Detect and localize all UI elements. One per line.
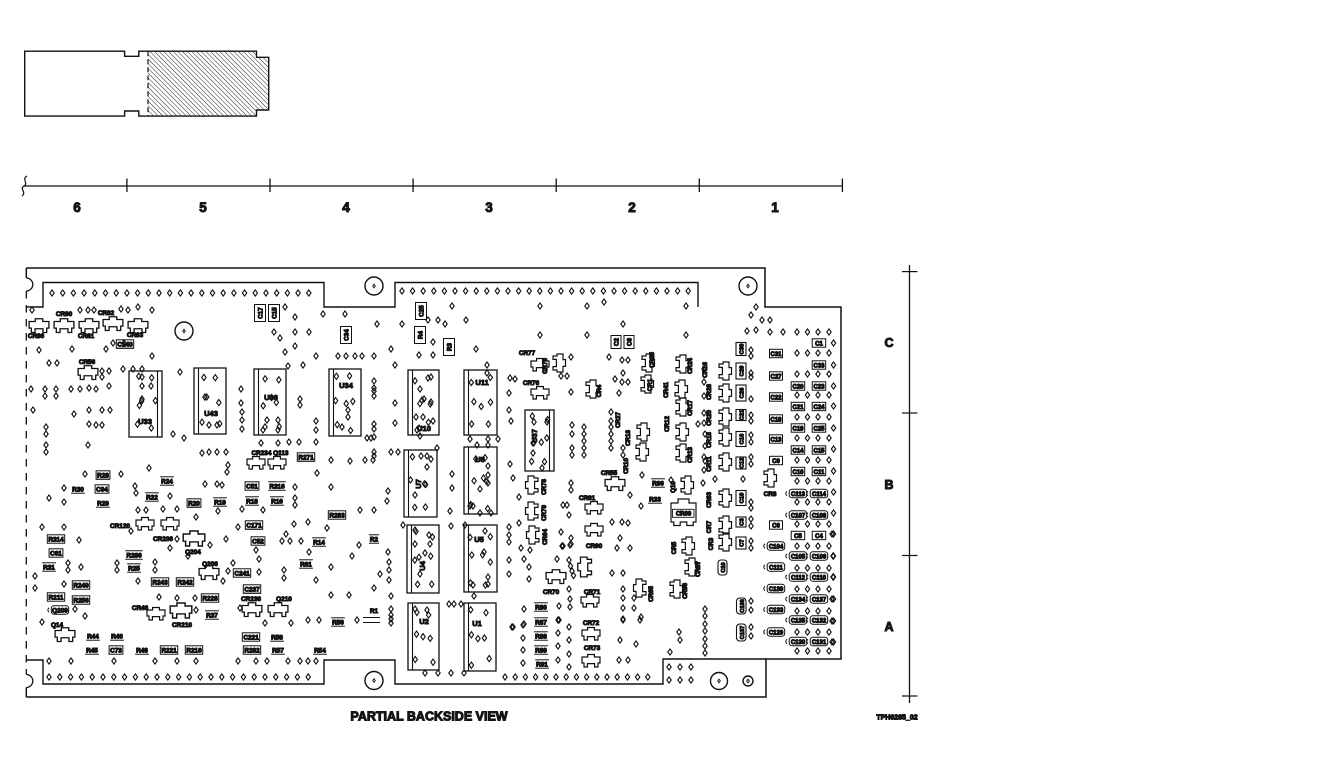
resistor R88 label [534, 639, 548, 641]
svg-text:U1: U1 [472, 619, 482, 628]
svg-text:CR71: CR71 [584, 589, 601, 596]
diode CR18 [636, 443, 649, 461]
svg-text:CR28: CR28 [706, 384, 713, 400]
diode CR65 [634, 579, 647, 597]
svg-text:R61: R61 [300, 562, 312, 569]
capacitor C114 [810, 489, 828, 497]
resistor R314 label [47, 535, 64, 543]
capacitor C7 (vertical box) [736, 537, 746, 549]
capacitor C110 [810, 573, 828, 581]
diode CR60 [585, 524, 603, 537]
capacitor C22 [770, 393, 783, 401]
svg-text:R256: R256 [73, 598, 89, 605]
svg-text:R242: R242 [177, 580, 193, 587]
diode CR16 [719, 362, 732, 380]
capacitor C171 label [245, 521, 262, 529]
svg-text:R271: R271 [298, 455, 314, 462]
svg-text:CR41: CR41 [663, 382, 670, 398]
capacitor C129 [767, 628, 785, 636]
resistor R228 label [201, 594, 218, 602]
svg-text:R221: R221 [161, 648, 177, 655]
svg-text:C105: C105 [791, 555, 806, 561]
diode CR58 [578, 557, 592, 577]
svg-text:C25: C25 [813, 427, 825, 433]
diode CR83 [128, 319, 148, 333]
mounting hole bottom-right large [711, 673, 728, 690]
capacitor C221 label [242, 633, 259, 641]
IC U4 [407, 525, 439, 593]
svg-text:R86: R86 [535, 605, 547, 612]
resistor R89 label [534, 653, 548, 655]
svg-text:C51: C51 [246, 484, 258, 491]
svg-text:C: C [884, 336, 893, 350]
resistor R4 label (vertical) [415, 327, 426, 344]
svg-text:R96: R96 [652, 481, 664, 488]
svg-text:R1: R1 [370, 608, 379, 615]
svg-text:C33: C33 [813, 364, 825, 370]
diode CR1 [641, 375, 654, 393]
resistor R18 label [245, 504, 259, 506]
svg-text:U10: U10 [417, 424, 431, 433]
svg-text:C237: C237 [244, 587, 260, 594]
zone scale tick [902, 271, 918, 273]
resistor R14 label [312, 545, 326, 547]
diode CR15 [719, 428, 732, 446]
svg-text:CR17: CR17 [687, 400, 694, 416]
svg-text:C16: C16 [792, 470, 804, 476]
svg-text:R91: R91 [536, 662, 548, 669]
resistor R46 label [110, 639, 124, 641]
svg-text:5: 5 [199, 200, 207, 215]
svg-text:R30: R30 [72, 487, 84, 494]
capacitor C18 [770, 415, 783, 423]
svg-text:C9: C9 [772, 459, 780, 465]
svg-text:CR86: CR86 [28, 333, 45, 340]
capacitor C14 [791, 446, 805, 454]
transistor Q113 [268, 457, 286, 470]
IC U10 [408, 370, 439, 435]
svg-text:U11: U11 [475, 378, 488, 387]
capacitor C108 [810, 511, 828, 519]
svg-text:R3: R3 [446, 342, 453, 350]
svg-text:CR210: CR210 [172, 622, 192, 629]
svg-text:R18: R18 [246, 499, 258, 506]
capacitor C30 (vertical box) [736, 343, 746, 356]
svg-text:CR3: CR3 [708, 537, 715, 550]
svg-text:CR70: CR70 [543, 589, 560, 596]
diode CR12 [676, 423, 689, 441]
capacitor C15 label (vertical) [269, 305, 280, 322]
board outer edge left solid segments [25, 268, 27, 278]
svg-text:R2: R2 [370, 537, 379, 544]
svg-text:C14: C14 [792, 449, 804, 455]
capacitor C133 [767, 605, 785, 613]
svg-text:CR72: CR72 [583, 620, 600, 627]
svg-text:CR55: CR55 [601, 470, 618, 477]
svg-text:CR4: CR4 [596, 384, 603, 397]
diode CR66 [670, 580, 683, 598]
capacitor C19 [791, 424, 805, 432]
diode CR41 [675, 380, 688, 398]
svg-text:C130: C130 [791, 640, 806, 646]
svg-text:6: 6 [73, 200, 81, 215]
svg-text:C107: C107 [791, 514, 806, 520]
svg-text:C136: C136 [740, 599, 746, 612]
diode CR11 [719, 453, 732, 471]
resistor R33 label [648, 502, 662, 504]
IC U11 [464, 370, 497, 435]
diode CR73 [582, 655, 600, 668]
svg-text:PARTIAL BACKSIDE VIEW: PARTIAL BACKSIDE VIEW [350, 710, 507, 724]
resistor R1 [363, 608, 380, 623]
diode CR120b [161, 518, 179, 531]
svg-text:CR69: CR69 [676, 512, 692, 518]
resistor R24 label [160, 484, 174, 486]
zone scale vertical line [909, 265, 911, 703]
capacitor C112 [789, 573, 807, 581]
resistor R3 label (vertical) [444, 339, 455, 356]
resistor R216 label [185, 646, 202, 654]
resistor R87 label [534, 625, 548, 627]
resistor R61 label [299, 567, 313, 569]
capacitor C3 (vertical box) [736, 517, 746, 527]
svg-text:CR83: CR83 [127, 332, 144, 339]
svg-text:CR78: CR78 [541, 479, 548, 495]
svg-text:C17: C17 [257, 307, 264, 319]
svg-text:CR56: CR56 [79, 359, 96, 366]
svg-text:U33: U33 [138, 417, 152, 426]
capacitor C17 label (vertical) [255, 305, 266, 322]
capacitor C27 [770, 372, 783, 380]
svg-text:C106: C106 [812, 555, 827, 561]
zone scale tick [902, 555, 918, 557]
svg-text:CR206: CR206 [153, 536, 173, 543]
svg-text:C113: C113 [791, 492, 806, 498]
svg-text:C7: C7 [740, 539, 746, 546]
svg-text:C129: C129 [769, 631, 784, 637]
IC U7 [404, 450, 437, 517]
svg-text:C27: C27 [770, 375, 782, 381]
diode CR17x [676, 398, 689, 416]
section break dashed line [147, 51, 149, 116]
transistor Q204 [183, 531, 205, 546]
resistor R56 label [331, 625, 345, 627]
capacitor C73 label [109, 646, 123, 654]
capacitor C31 [770, 349, 783, 357]
svg-text:CR11: CR11 [706, 456, 713, 472]
svg-text:R25: R25 [128, 566, 140, 573]
IC U1 [464, 603, 496, 671]
svg-text:R286: R286 [126, 553, 142, 560]
svg-text:R283: R283 [329, 513, 345, 520]
svg-text:CR63: CR63 [706, 492, 713, 508]
capacitor C140 label [116, 340, 133, 348]
svg-text:CR66: CR66 [682, 583, 689, 599]
hatched shaft section [148, 51, 269, 116]
capacitor C6 label (vertical) [624, 336, 634, 349]
svg-text:R314: R314 [48, 537, 64, 544]
IC U2 [408, 603, 439, 670]
board inner edge bottom with notches [26, 659, 766, 684]
diode CR71 [581, 595, 599, 608]
svg-text:C110: C110 [812, 576, 827, 582]
resistor R37 label [205, 618, 219, 620]
svg-text:R249: R249 [73, 583, 89, 590]
diode CR69 (large body with label) [671, 499, 696, 526]
svg-text:3: 3 [485, 200, 493, 215]
svg-text:C135: C135 [791, 619, 806, 625]
svg-text:CR8: CR8 [764, 491, 777, 498]
svg-text:U36: U36 [264, 393, 278, 402]
svg-text:C34: C34 [343, 329, 350, 341]
svg-text:C137: C137 [812, 598, 827, 604]
svg-text:Q210: Q210 [276, 596, 292, 603]
svg-text:R28: R28 [97, 473, 109, 480]
capacitor C25 label (vertical) [416, 303, 427, 320]
svg-text:CR7: CR7 [706, 520, 713, 533]
diode CR78 [526, 476, 539, 494]
svg-text:Q14: Q14 [51, 622, 64, 629]
ruler tick [555, 179, 557, 193]
IC U37 [525, 410, 554, 471]
svg-text:U7: U7 [414, 479, 423, 489]
svg-text:B: B [884, 478, 893, 492]
capacitor C25 [812, 424, 826, 432]
diode CR25 [642, 354, 655, 372]
capacitor C241 label [233, 569, 250, 577]
left edge semicircle cutout top [26, 278, 33, 291]
diode CR7 [719, 516, 732, 534]
svg-text:R19: R19 [214, 500, 226, 507]
capacitor C107 [789, 511, 807, 519]
svg-text:C1: C1 [815, 342, 823, 348]
svg-text:R29: R29 [97, 501, 109, 508]
svg-text:U5: U5 [474, 535, 484, 544]
mounting hole top notch [365, 277, 383, 295]
svg-text:C4: C4 [815, 534, 823, 540]
resistor R91 label [535, 667, 549, 669]
svg-text:C21: C21 [792, 405, 804, 411]
svg-text:R44: R44 [87, 634, 99, 641]
svg-text:R243: R243 [152, 580, 168, 587]
capacitor C135 [789, 616, 807, 624]
svg-text:C221: C221 [243, 635, 259, 642]
svg-text:CR61: CR61 [579, 495, 596, 502]
svg-text:R37: R37 [206, 613, 218, 620]
capacitor C111 [767, 563, 785, 571]
resistor R28 label [96, 471, 110, 479]
capacitor C15 [812, 446, 826, 454]
svg-text:CR73: CR73 [584, 645, 601, 652]
svg-text:CR10: CR10 [623, 458, 630, 474]
zone scale tick [902, 412, 918, 414]
svg-text:C10: C10 [740, 493, 746, 504]
diode CR77 [531, 359, 549, 372]
svg-text:R22: R22 [146, 495, 158, 502]
diode CR76 [531, 387, 549, 400]
svg-text:R89: R89 [535, 648, 547, 655]
diode CR4 [586, 380, 599, 398]
diode CR24 [676, 355, 689, 373]
svg-text:R228: R228 [202, 596, 218, 603]
diode CR64 [527, 526, 540, 544]
svg-text:C24: C24 [813, 405, 825, 411]
svg-text:C112: C112 [791, 576, 806, 582]
svg-text:C6: C6 [626, 337, 633, 345]
svg-text:C31: C31 [770, 352, 782, 358]
svg-text:R16: R16 [271, 499, 283, 506]
svg-text:C2: C2 [613, 337, 620, 345]
capacitor C2v (vertical capsule) [718, 560, 727, 575]
svg-text:C10: C10 [721, 562, 727, 572]
svg-text:R4: R4 [417, 330, 424, 338]
capacitor C6 [770, 521, 783, 529]
diode CR13 [676, 444, 689, 462]
transistor Q210 [268, 603, 288, 617]
svg-text:R282: R282 [244, 648, 260, 655]
resistor R54 label [313, 653, 327, 655]
resistor R22 label [145, 500, 159, 502]
resistor R44 label [86, 639, 100, 641]
resistor R211 label [47, 593, 64, 601]
ruler left break squiggle [22, 176, 27, 196]
capacitor C20 [791, 382, 805, 390]
svg-text:C23: C23 [813, 385, 825, 391]
resistor R243 label [151, 578, 168, 586]
svg-text:C22: C22 [770, 396, 782, 402]
capacitor C104 [767, 542, 785, 550]
capacitor C12 (vertical box) [736, 457, 746, 469]
svg-text:C132: C132 [812, 619, 827, 625]
diode CR72 [582, 628, 600, 641]
svg-text:C30: C30 [740, 344, 746, 355]
diode CR2 [637, 423, 650, 441]
resistor R57 label [271, 653, 285, 655]
svg-text:C16: C16 [740, 433, 746, 444]
IC U8 [464, 447, 497, 514]
svg-text:C52: C52 [252, 539, 264, 546]
svg-text:CR5: CR5 [671, 541, 678, 554]
capacitor C134 [789, 595, 807, 603]
left edge semicircle cutout bottom [26, 675, 33, 688]
resistor R30 label [71, 492, 85, 494]
resistor R19 label [213, 505, 227, 507]
resistor R316 label [268, 489, 285, 491]
capacitor C5 [791, 531, 805, 539]
svg-text:R87: R87 [535, 620, 547, 627]
resistor R31 label [42, 570, 56, 572]
svg-text:CR81: CR81 [78, 333, 95, 340]
svg-text:C13: C13 [770, 438, 782, 444]
svg-text:CR65: CR65 [648, 586, 655, 602]
capacitor C132 [810, 616, 828, 624]
part body outline (extractor handle, side view) [25, 51, 269, 116]
svg-text:CR77: CR77 [519, 350, 536, 357]
IC U36 [254, 369, 286, 435]
svg-text:C241: C241 [234, 571, 250, 578]
svg-text:1: 1 [771, 200, 779, 215]
zone scale tick [902, 695, 918, 697]
IC U43 [194, 368, 226, 434]
capacitor C21 (vertical box) [736, 410, 746, 421]
svg-text:R46: R46 [111, 634, 123, 641]
svg-text:C134: C134 [791, 598, 806, 604]
svg-text:C19: C19 [792, 427, 804, 433]
diode CR81 [79, 319, 99, 333]
transistor Q209 label [51, 606, 68, 614]
capacitor C137 [810, 595, 828, 603]
svg-text:CR27: CR27 [615, 412, 622, 428]
diode CR120a [136, 518, 154, 531]
resistor R45 label [85, 653, 99, 655]
svg-text:C133: C133 [769, 608, 784, 614]
diode CR3 [719, 533, 732, 551]
resistor R20 label [187, 499, 201, 507]
svg-text:R56: R56 [332, 620, 344, 627]
svg-text:R20: R20 [188, 501, 200, 508]
resistor R249 label [72, 581, 89, 589]
ruler tick [841, 179, 843, 193]
svg-text:2: 2 [628, 200, 636, 215]
svg-text:C6: C6 [772, 524, 780, 530]
svg-text:C104: C104 [769, 545, 784, 551]
resistor R58 label [270, 640, 284, 642]
svg-text:CR64: CR64 [542, 529, 549, 545]
svg-text:C111: C111 [769, 566, 783, 572]
svg-text:R45: R45 [86, 648, 98, 655]
resistor R271 label [297, 453, 314, 461]
svg-text:CR75: CR75 [542, 358, 549, 374]
svg-text:U8: U8 [475, 455, 485, 464]
svg-text:U34: U34 [339, 381, 354, 390]
svg-text:R58: R58 [271, 635, 283, 642]
capacitor C9 [770, 456, 783, 464]
diode CR20 [719, 408, 732, 426]
svg-text:U4: U4 [418, 560, 427, 570]
svg-text:C131: C131 [812, 640, 827, 646]
svg-text:C139: C139 [769, 587, 784, 593]
capacitor C51 label [245, 482, 259, 490]
board outer edge left dashed segment [25, 291, 27, 675]
svg-text:CR76: CR76 [523, 380, 540, 387]
resistor R286 label [125, 558, 142, 560]
capacitor C16 (vertical box) [736, 432, 746, 447]
svg-text:R24: R24 [161, 479, 173, 486]
diode CR234 [247, 457, 265, 470]
svg-text:C12: C12 [740, 458, 746, 469]
resistor R48 label [135, 653, 149, 655]
diode CR56 [78, 366, 98, 380]
svg-text:U37: U37 [530, 429, 539, 443]
svg-text:CR13: CR13 [687, 447, 694, 463]
svg-text:C18: C18 [770, 418, 782, 424]
resistor R86 label [534, 610, 548, 612]
svg-text:CR25: CR25 [649, 352, 656, 368]
resistor R256 label [72, 596, 89, 604]
resistor R221 label [160, 646, 177, 654]
diode CR46 [147, 608, 165, 621]
svg-text:CR92: CR92 [98, 310, 115, 317]
svg-text:C137: C137 [740, 626, 746, 639]
board inner edge top with notches [26, 283, 698, 308]
svg-text:CR24: CR24 [687, 358, 694, 374]
diode CR86 [29, 319, 49, 333]
svg-text:R88: R88 [535, 634, 547, 641]
ruler tick [126, 179, 128, 193]
capacitor C10 (vertical box) [736, 491, 746, 506]
svg-text:CR90: CR90 [56, 311, 73, 318]
svg-text:R48: R48 [136, 648, 148, 655]
